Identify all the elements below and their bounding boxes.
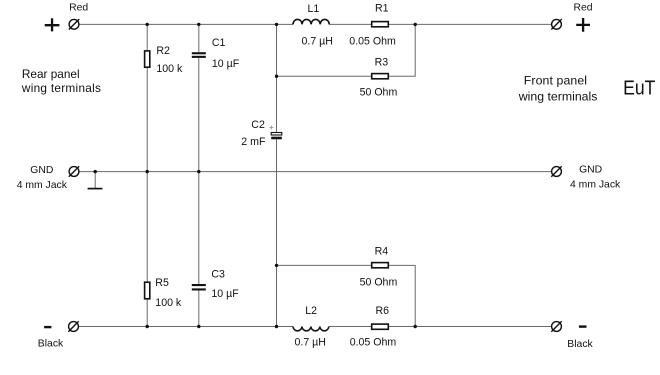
label R1 <box>375 3 389 15</box>
label R4 <box>375 246 389 258</box>
label R3 value <box>360 87 398 99</box>
label C1 value <box>212 58 240 70</box>
label C2 value <box>241 136 266 148</box>
svg-text:L2: L2 <box>305 305 317 317</box>
wire bottom line right segment <box>389 326 552 328</box>
node bottom R5 junction <box>146 325 149 328</box>
svg-text:R6: R6 <box>376 305 390 317</box>
svg-text:0.7 µH: 0.7 µH <box>295 337 326 349</box>
label R3 <box>375 56 389 68</box>
label R6 value <box>350 337 397 349</box>
svg-text:2 mF: 2 mF <box>241 136 266 148</box>
svg-text:50 Ohm: 50 Ohm <box>360 87 398 99</box>
node R3 left junction <box>275 75 278 78</box>
polarity plus rear <box>45 18 60 31</box>
svg-text:Front panel: Front panel <box>524 73 587 87</box>
svg-text:C2: C2 <box>251 119 265 131</box>
label C2 <box>251 119 265 131</box>
resistor R4 <box>372 263 389 268</box>
inductor L2 <box>293 327 329 331</box>
svg-text:Black: Black <box>38 339 64 350</box>
label R6 <box>376 305 390 317</box>
terminal rear gnd <box>69 166 79 176</box>
label L1 <box>308 3 320 15</box>
capacitor C3 <box>192 284 206 291</box>
svg-text:Red: Red <box>574 2 593 13</box>
label Black front <box>567 339 593 350</box>
svg-text:wing terminals: wing terminals <box>21 81 101 95</box>
svg-text:EuT: EuT <box>623 76 656 98</box>
label front panel <box>518 73 598 103</box>
wire bottom line left segment <box>78 326 293 328</box>
svg-text:100 k: 100 k <box>155 297 182 309</box>
node ground junction <box>94 170 97 173</box>
svg-text:4 mm Jack: 4 mm Jack <box>17 180 68 191</box>
node bottom R6 junction <box>414 325 417 328</box>
label C3 value <box>211 288 239 300</box>
svg-text:C3: C3 <box>211 268 225 280</box>
node top C1 junction <box>197 23 200 26</box>
resistor R2 <box>145 51 150 67</box>
node GND R2 junction <box>146 170 149 173</box>
label C3 <box>211 268 225 280</box>
resistor R5 <box>145 282 150 299</box>
resistor R3 <box>372 74 389 79</box>
wire vertical C1/C3 branch <box>198 24 200 326</box>
label rear panel <box>21 67 101 95</box>
svg-text:R2: R2 <box>156 45 170 57</box>
label Red rear <box>69 2 88 13</box>
svg-text:wing terminals: wing terminals <box>518 90 598 104</box>
svg-text:Red: Red <box>69 2 88 13</box>
svg-text:R1: R1 <box>375 3 389 15</box>
svg-text:C1: C1 <box>212 37 226 49</box>
label GND rear <box>17 165 68 191</box>
terminal rear minus <box>68 321 78 331</box>
wire vertical R2/R5 branch <box>146 24 148 326</box>
wire top line left segment <box>79 23 293 25</box>
resistor R1 <box>372 22 389 27</box>
wire vertical R3 right branch <box>414 24 416 77</box>
label R4 value <box>360 277 398 289</box>
resistor R6 <box>372 324 389 329</box>
svg-text:50 Ohm: 50 Ohm <box>360 277 398 289</box>
terminal front plus <box>551 19 561 29</box>
label L1 value <box>302 35 333 47</box>
label R2 <box>156 45 170 57</box>
node GND C1 junction <box>197 170 200 173</box>
svg-text:GND: GND <box>30 165 53 176</box>
label L2 <box>305 305 317 317</box>
label Black rear <box>38 339 64 350</box>
polarity minus front <box>579 325 587 327</box>
label L2 value <box>295 337 326 349</box>
svg-text:Black: Black <box>567 339 593 350</box>
wire vertical R4 right branch <box>414 265 416 327</box>
inductor L1 <box>293 19 329 24</box>
node top R3 junction <box>414 23 417 26</box>
polarity minus rear <box>44 326 51 328</box>
node R4 left junction <box>275 264 278 267</box>
label Red front <box>574 2 593 13</box>
wire R4 row right segment <box>389 264 415 266</box>
node top R2 junction <box>146 23 149 26</box>
label R5 <box>155 277 169 289</box>
ground <box>88 172 103 189</box>
node bottom C2 junction <box>275 325 278 328</box>
terminal front minus <box>551 321 561 331</box>
wire top line between L1 and R1 <box>329 23 371 25</box>
label EuT <box>623 76 656 98</box>
wire GND line <box>79 171 552 173</box>
svg-text:10 µF: 10 µF <box>212 58 240 70</box>
svg-text:R3: R3 <box>375 56 389 68</box>
label GND front <box>570 164 621 190</box>
label R1 value <box>349 35 396 47</box>
svg-text:GND: GND <box>579 164 602 175</box>
svg-text:L1: L1 <box>308 3 320 15</box>
svg-text:100 k: 100 k <box>156 63 183 75</box>
terminal front gnd <box>551 166 561 176</box>
polarity plus front <box>576 18 590 32</box>
capacitor C1 <box>192 52 206 58</box>
svg-text:0.05 Ohm: 0.05 Ohm <box>349 35 396 47</box>
svg-text:4 mm Jack: 4 mm Jack <box>570 179 621 190</box>
wire R3 row right segment <box>389 75 415 77</box>
node top C2 junction <box>275 23 278 26</box>
label R5 value <box>155 297 182 309</box>
label C1 <box>212 37 226 49</box>
node bottom C3 junction <box>197 325 200 328</box>
label R2 value <box>156 63 183 75</box>
svg-text:Rear panel: Rear panel <box>22 67 80 81</box>
svg-text:0.7 µH: 0.7 µH <box>302 35 333 47</box>
wire vertical C2 branch <box>276 24 278 326</box>
svg-text:R4: R4 <box>375 246 389 258</box>
svg-text:0.05 Ohm: 0.05 Ohm <box>350 337 397 349</box>
wire bottom line between L2 and R6 <box>329 326 371 328</box>
wire R4 row left segment <box>277 264 372 266</box>
svg-text:10 µF: 10 µF <box>211 288 239 300</box>
wire R3 row left segment <box>277 75 372 77</box>
svg-text:R5: R5 <box>155 277 169 289</box>
capacitor C2 <box>270 126 282 140</box>
terminal rear plus <box>69 19 79 29</box>
wire top line right segment <box>389 23 552 25</box>
